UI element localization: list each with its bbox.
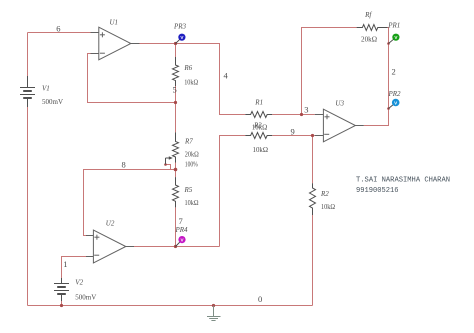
svg-text:20kΩ: 20kΩ <box>185 151 199 159</box>
wire node 3 up to Rf left <box>302 28 357 115</box>
wire 6 horizontal V1 top to U1 + input <box>28 32 91 34</box>
svg-text:10kΩ: 10kΩ <box>185 199 199 207</box>
wire R1 right to node 3 and U3 + input <box>272 114 315 116</box>
svg-text:6: 6 <box>56 24 60 34</box>
svg-text:1: 1 <box>63 259 67 269</box>
junction node PR3/R6 at U1 output <box>174 42 177 45</box>
wire node 5 feedback to U1 - input <box>88 54 176 103</box>
svg-text:V1: V1 <box>42 85 50 93</box>
wire U2 output to node 7 <box>134 246 220 248</box>
svg-text:V2: V2 <box>75 279 83 287</box>
resistor R6 <box>173 57 179 86</box>
svg-text:R5: R5 <box>184 186 193 194</box>
junction node 9 <box>311 134 314 137</box>
svg-text:PR3: PR3 <box>173 23 187 31</box>
svg-text:2: 2 <box>392 67 396 77</box>
resistor R2 <box>310 183 316 215</box>
wire R7 bottom to node 8 junction <box>175 163 177 178</box>
svg-text:10kΩ: 10kΩ <box>184 79 198 87</box>
op-amp U2 <box>86 230 134 263</box>
svg-text:R1: R1 <box>254 99 263 107</box>
junction node 3 <box>300 113 303 116</box>
wire left rail upper (V1 top lead) <box>27 33 29 77</box>
svg-text:R6: R6 <box>183 64 192 72</box>
probe PR4 <box>176 236 186 247</box>
junction PR1 attach <box>387 42 390 45</box>
resistor R1 <box>245 112 272 118</box>
op-amp U3 <box>315 109 364 142</box>
junction node 8 / pot bottom <box>174 168 178 172</box>
wire left rail lower (V1 bottom to ground rail) <box>27 107 29 306</box>
wire 2 Rf right down to U3 output <box>364 28 389 126</box>
wire R2 bottom to ground rail <box>312 215 314 306</box>
svg-text:100%: 100% <box>185 161 198 169</box>
probe PR1 <box>389 34 400 44</box>
wire V2 bottom stub <box>61 301 63 306</box>
svg-text:R3: R3 <box>253 122 262 130</box>
svg-text:8: 8 <box>122 160 126 170</box>
resistor R3 <box>245 133 272 139</box>
wire 4 PR3 node to R1 left <box>176 44 246 115</box>
svg-text:9919005216: 9919005216 <box>356 187 399 195</box>
battery V2 <box>54 278 69 301</box>
svg-text:10kΩ: 10kΩ <box>321 203 335 211</box>
svg-text:U3: U3 <box>335 100 344 108</box>
svg-text:PR1: PR1 <box>387 22 400 30</box>
wire R6 bottom to node 5 <box>175 86 177 132</box>
junction V2 bottom on rail <box>60 304 63 307</box>
svg-text:500mV: 500mV <box>42 98 63 106</box>
junction ground on rail <box>212 304 215 307</box>
junction node 7 PR4 <box>174 245 177 248</box>
wire bottom ground rail node 0 <box>28 305 313 307</box>
svg-text:500mV: 500mV <box>75 294 96 302</box>
svg-text:PR2: PR2 <box>388 90 402 98</box>
battery V1 <box>20 76 35 107</box>
svg-text:R7: R7 <box>184 138 193 146</box>
svg-text:4: 4 <box>224 71 229 81</box>
wire node 9 down to R2 top <box>312 136 314 184</box>
op-amp U1 <box>91 27 140 60</box>
wire wiper dogleg <box>166 165 171 170</box>
resistor R5 <box>173 177 179 207</box>
resistor Rf <box>357 25 388 31</box>
svg-text:U1: U1 <box>110 19 119 27</box>
wire R3 right to node 9 and U3 - input <box>272 135 315 137</box>
junction wiper dot <box>164 163 167 166</box>
wire node 7 up to R3 left <box>220 136 246 247</box>
junction node 5 <box>174 101 177 104</box>
svg-text:U2: U2 <box>106 220 115 228</box>
svg-text:PR4: PR4 <box>175 226 189 234</box>
probe PR2 <box>389 99 400 109</box>
svg-text:7: 7 <box>179 216 183 226</box>
wire R5 bottom to node 7 <box>175 207 177 246</box>
wire 8 pot wiper to U2 + input <box>84 170 176 236</box>
svg-text:0: 0 <box>258 294 262 304</box>
svg-text:R2: R2 <box>320 190 329 198</box>
wire R6 top lead segment <box>175 44 177 58</box>
svg-text:Rf: Rf <box>364 11 372 19</box>
svg-text:20kΩ: 20kΩ <box>361 36 377 44</box>
svg-text:9: 9 <box>291 127 295 137</box>
svg-text:3: 3 <box>304 105 308 115</box>
potentiometer R7 <box>166 132 179 164</box>
probe PR3 <box>176 34 186 44</box>
wire U1 output to PR3 node <box>140 43 176 45</box>
svg-text:5: 5 <box>173 85 177 95</box>
svg-text:T.SAI NARASIMHA CHARAN: T.SAI NARASIMHA CHARAN <box>356 177 450 185</box>
junction PR2 attach <box>387 107 390 110</box>
wire 1 V2 top to U2 - input <box>62 257 87 279</box>
ground <box>207 306 221 321</box>
svg-text:10kΩ: 10kΩ <box>253 146 269 154</box>
